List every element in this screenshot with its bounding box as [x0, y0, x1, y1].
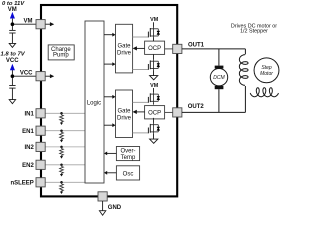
svg-text:OUT1: OUT1 — [188, 42, 205, 48]
svg-text:1.8 to 7V: 1.8 to 7V — [1, 52, 26, 58]
svg-text:OCP: OCP — [148, 111, 161, 117]
svg-text:VM: VM — [150, 83, 159, 89]
svg-text:0 to 11V: 0 to 11V — [2, 1, 25, 7]
svg-text:Over-: Over- — [121, 148, 136, 154]
svg-text:Drive: Drive — [117, 50, 132, 56]
svg-text:VCC: VCC — [6, 58, 19, 64]
svg-text:nSLEEP: nSLEEP — [10, 181, 33, 187]
svg-text:Temp: Temp — [121, 155, 136, 161]
svg-text:VM: VM — [24, 19, 33, 25]
svg-text:OUT2: OUT2 — [188, 104, 205, 110]
svg-text:VM: VM — [150, 17, 159, 23]
svg-text:IN2: IN2 — [24, 145, 34, 151]
svg-text:Motor: Motor — [260, 71, 273, 77]
svg-text:Osc: Osc — [123, 172, 134, 178]
svg-text:Gate: Gate — [117, 108, 131, 114]
svg-text:Drive: Drive — [117, 115, 132, 121]
svg-text:Pump: Pump — [53, 53, 69, 59]
svg-text:EN1: EN1 — [22, 129, 34, 135]
svg-text:VCC: VCC — [20, 70, 33, 76]
svg-text:1/2 Stepper: 1/2 Stepper — [240, 29, 268, 35]
svg-text:OCP: OCP — [148, 46, 161, 52]
svg-text:VM: VM — [8, 7, 17, 13]
svg-text:Gate: Gate — [117, 43, 131, 49]
svg-text:GND: GND — [108, 205, 122, 211]
svg-text:Logic: Logic — [87, 100, 101, 106]
svg-text:IN1: IN1 — [24, 112, 34, 118]
svg-text:DCM: DCM — [213, 75, 225, 81]
svg-text:EN2: EN2 — [22, 163, 34, 169]
